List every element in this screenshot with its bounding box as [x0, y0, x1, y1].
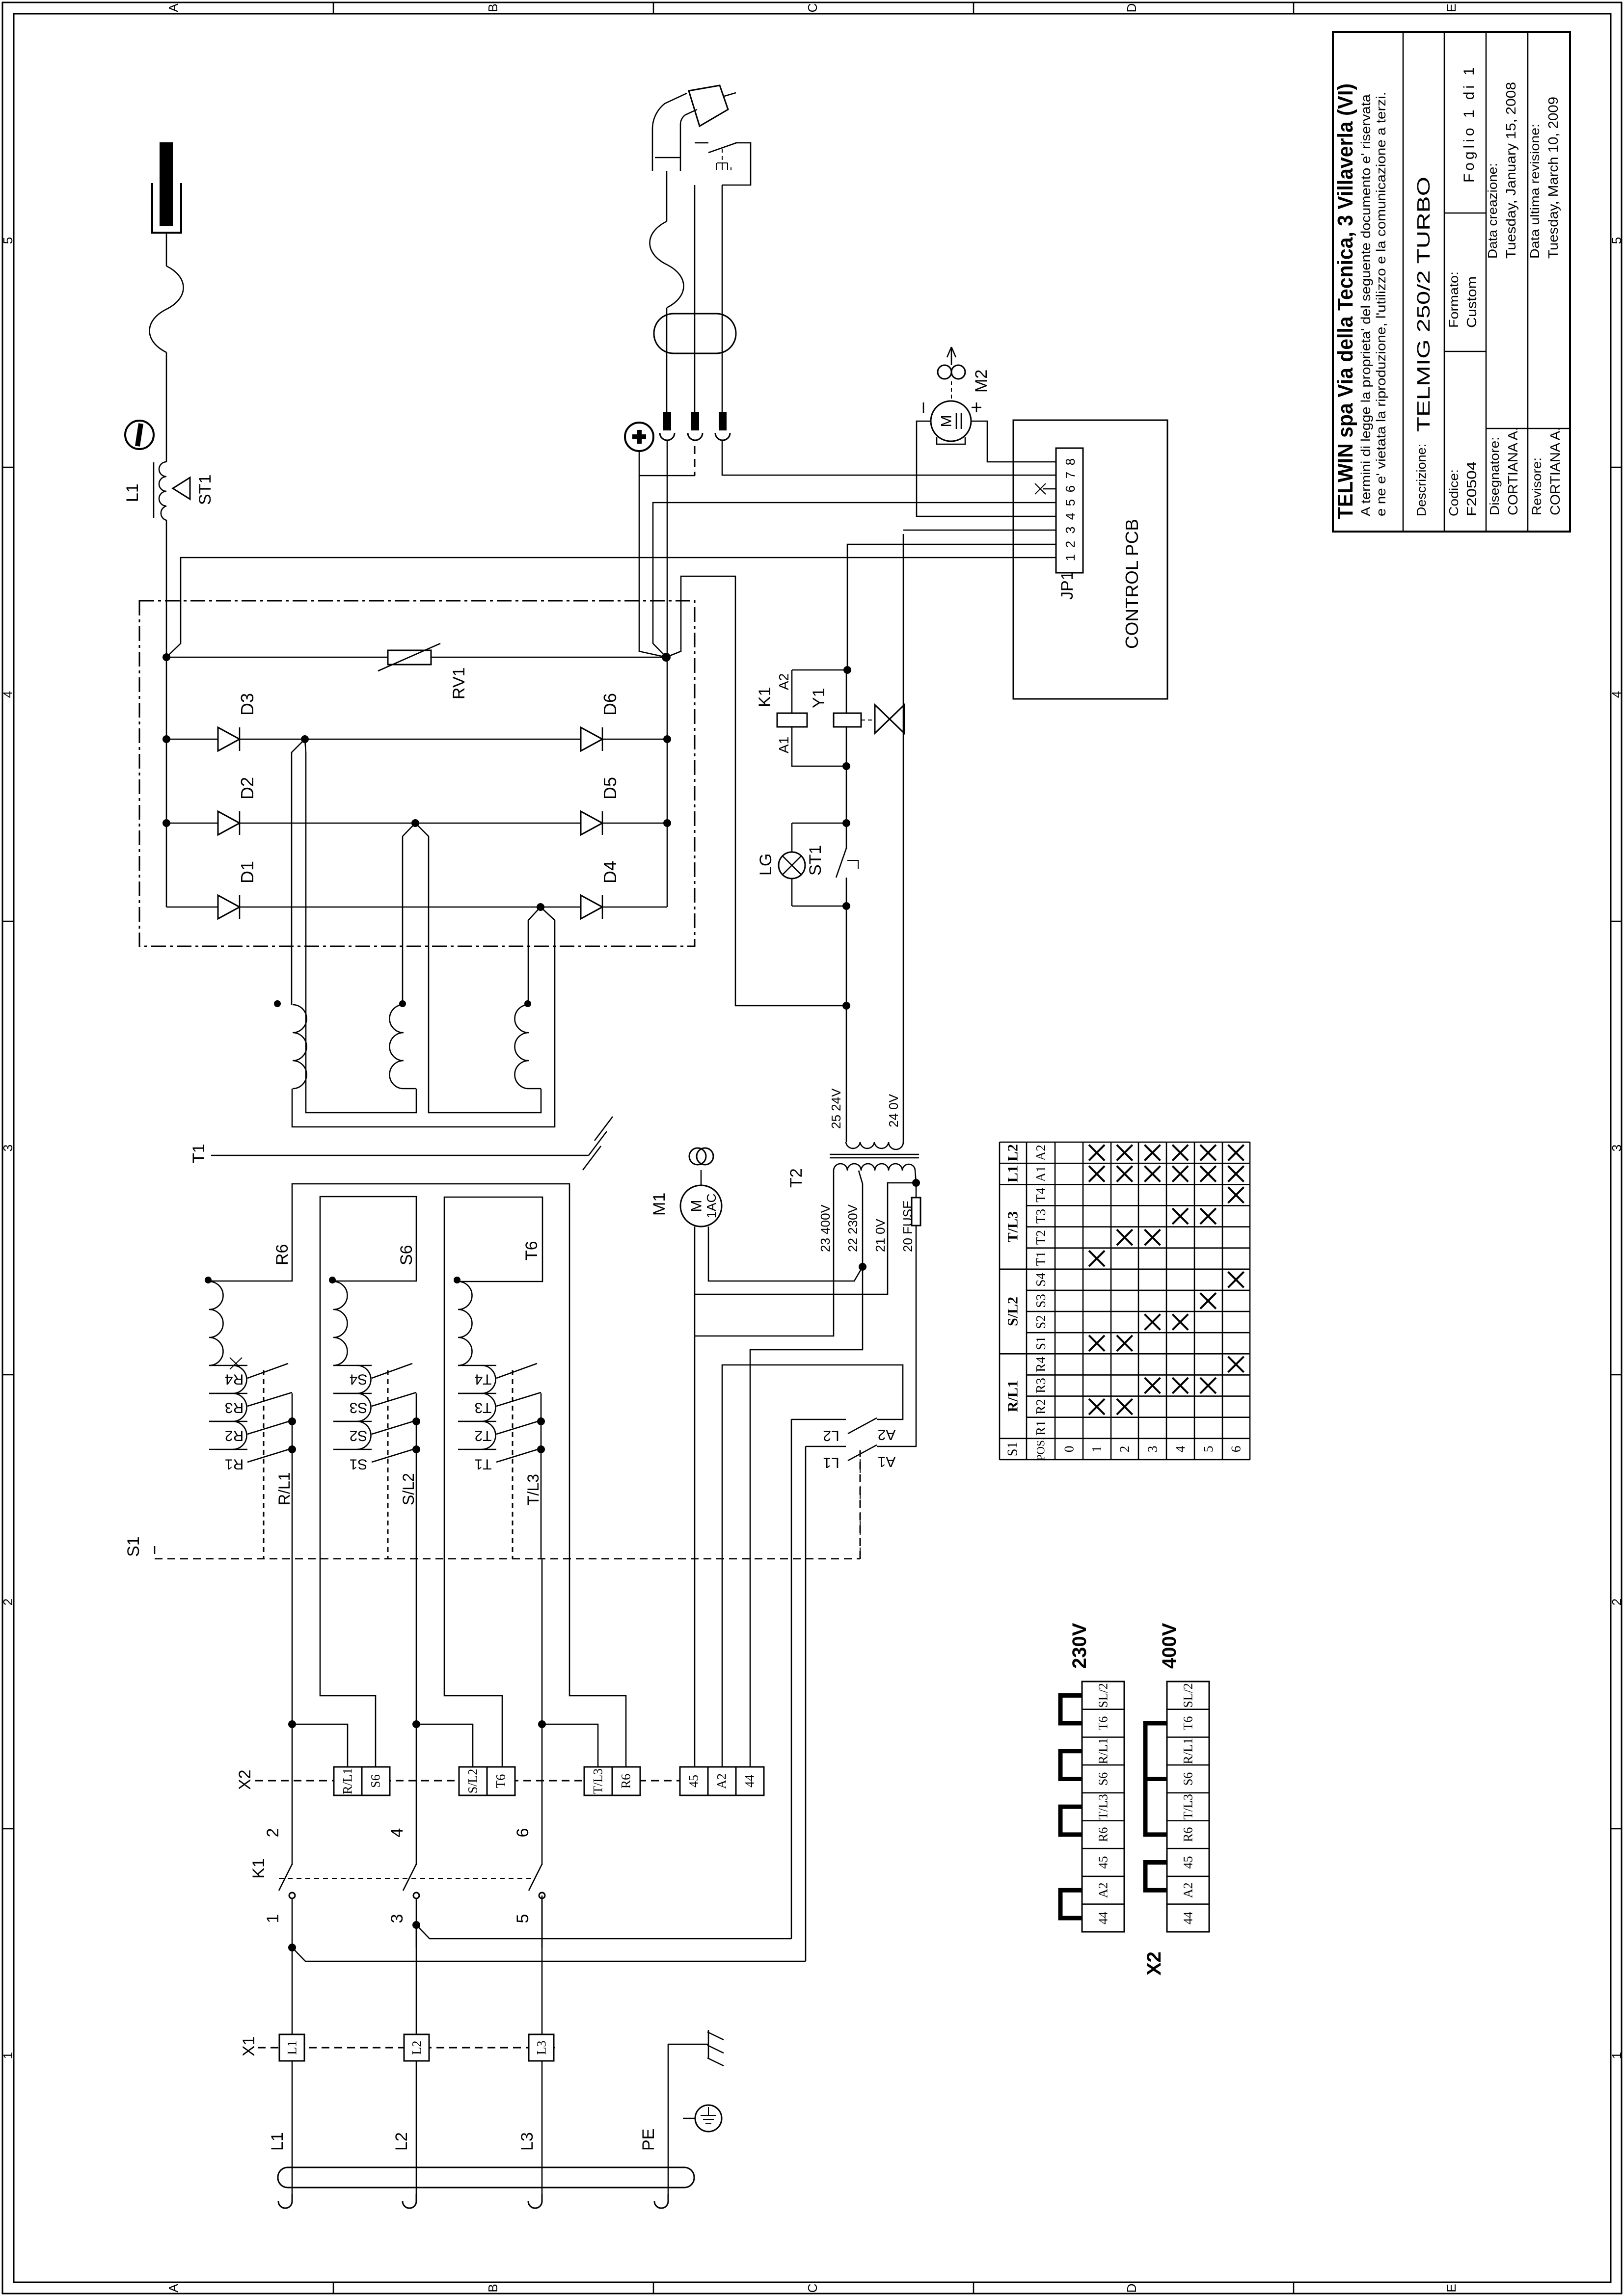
svg-text:Y1: Y1 — [810, 688, 828, 708]
svg-text:X1: X1 — [240, 2036, 258, 2056]
aux contact L1-A1 — [806, 1446, 846, 1447]
wire R/L1 tap bus to X2 — [288, 1720, 296, 1728]
svg-text:T/L3: T/L3 — [524, 1474, 542, 1505]
svg-text:L1: L1 — [268, 2132, 287, 2151]
svg-text:400V: 400V — [1159, 1623, 1180, 1669]
svg-text:D4: D4 — [600, 861, 620, 883]
svg-text:R3: R3 — [225, 1400, 244, 1416]
X2 terminal R6 — [612, 1767, 640, 1795]
svg-text:X2: X2 — [1143, 1951, 1165, 1976]
svg-text:L2: L2 — [823, 1428, 839, 1444]
svg-text:ST1: ST1 — [196, 475, 215, 505]
svg-text:R3: R3 — [1033, 1378, 1048, 1393]
svg-text:Disegnatore:: Disegnatore: — [1487, 437, 1502, 515]
aux wires down — [791, 1419, 792, 1939]
svg-text:M2: M2 — [972, 370, 991, 393]
JP1 pin3 wire to T2 0V — [903, 530, 1056, 531]
torch connector pins 1 2 3 — [663, 412, 671, 430]
svg-text:Tuesday, January 15, 2008: Tuesday, January 15, 2008 — [1503, 82, 1518, 259]
svg-text:3: 3 — [1145, 1446, 1160, 1453]
dc minus bus — [166, 657, 167, 907]
svg-text:Revisore:: Revisore: — [1529, 457, 1544, 515]
svg-text:4: 4 — [0, 691, 15, 698]
svg-text:T6: T6 — [522, 1241, 541, 1260]
diode D6 — [581, 727, 602, 751]
svg-text:R6: R6 — [273, 1244, 292, 1265]
connector JP1 — [1056, 448, 1083, 573]
svg-text:S2: S2 — [350, 1428, 368, 1444]
wire T/L3 tap bus to X2 — [538, 1720, 546, 1728]
svg-text:A1: A1 — [776, 737, 791, 753]
svg-text:S/L2: S/L2 — [1005, 1297, 1021, 1326]
svg-text:LG: LG — [757, 854, 775, 876]
ac feeder phase R pair — [292, 739, 305, 1005]
svg-text:R/L1: R/L1 — [1181, 1738, 1195, 1764]
svg-text:T4: T4 — [474, 1371, 491, 1388]
400V jumpers — [1145, 1723, 1167, 1779]
contactor K1 contact 4-3 — [416, 1559, 417, 1865]
svg-text:4: 4 — [1173, 1445, 1188, 1452]
tap selector blades S phase — [357, 1365, 372, 1366]
dc plus bus — [667, 657, 668, 907]
svg-text:B: B — [486, 3, 500, 12]
contactor K1 contact 2-1 — [292, 1559, 293, 1865]
supply wire L2 — [416, 1925, 417, 2034]
svg-text:R/L1: R/L1 — [341, 1768, 355, 1794]
title block — [1333, 32, 1570, 532]
T1 primary winding R phase — [209, 1281, 223, 1365]
svg-text:44: 44 — [1181, 1912, 1195, 1924]
cable ferrite oval — [654, 314, 736, 353]
X1 terminal L1 — [279, 2034, 304, 2061]
varistor RV1 — [166, 657, 388, 658]
svg-text:T1: T1 — [189, 1144, 208, 1163]
svg-text:T1: T1 — [1033, 1251, 1048, 1266]
diode D1 — [218, 895, 240, 919]
svg-text:1: 1 — [264, 1914, 282, 1923]
svg-text:Formato:: Formato: — [1446, 271, 1461, 328]
X2 terminal S/L2 — [459, 1767, 487, 1795]
svg-text:Descrizione:: Descrizione: — [1414, 444, 1429, 516]
svg-text:T/L3: T/L3 — [1181, 1794, 1195, 1819]
PE wire — [668, 2044, 669, 2194]
svg-text:S4: S4 — [350, 1371, 368, 1388]
svg-text:A2: A2 — [715, 1773, 729, 1789]
T1 primary winding T phase — [458, 1281, 472, 1365]
aux dashed link — [860, 1450, 861, 1559]
svg-text:D1: D1 — [237, 861, 257, 883]
svg-text:T/L3: T/L3 — [591, 1768, 605, 1794]
diode D3 — [218, 727, 240, 751]
JP1 pin5 wire to plus node — [653, 503, 1056, 657]
svg-text:T1: T1 — [474, 1456, 491, 1472]
feed wire from plus node loop — [666, 576, 846, 1006]
contactor K1 contact 6-5 — [541, 1559, 543, 1865]
solenoid valve Y1 — [834, 713, 861, 727]
svg-text:R6: R6 — [1096, 1827, 1110, 1842]
svg-text:2: 2 — [0, 1599, 15, 1605]
positive output socket — [625, 423, 653, 451]
svg-text:T6: T6 — [1096, 1716, 1110, 1731]
tap bus S phase — [416, 1393, 417, 1559]
tap bus R phase — [292, 1393, 293, 1559]
svg-text:B: B — [486, 2284, 500, 2292]
svg-text:L1: L1 — [285, 2041, 299, 2055]
JP1 pin4 wire to M2 minus — [917, 421, 1056, 516]
svg-text:A1: A1 — [1033, 1166, 1048, 1182]
selector dashed link S phase — [387, 1370, 389, 1559]
T2 tap 23 400V — [695, 1171, 834, 1336]
svg-text:A2: A2 — [878, 1427, 896, 1443]
svg-text:M: M — [689, 1200, 705, 1212]
wire contact3 node to L2 aux — [412, 1921, 420, 1929]
svg-text:R/L1: R/L1 — [1096, 1738, 1110, 1764]
zone dividers — [333, 2, 334, 14]
branch D3 D6 — [166, 739, 218, 740]
svg-text:L2: L2 — [392, 2132, 411, 2151]
earth circle symbol — [695, 2105, 722, 2132]
svg-text:C: C — [805, 2284, 820, 2293]
diode D4 — [581, 895, 602, 919]
supply hooks — [278, 2194, 292, 2208]
fan motor M1 — [689, 1148, 706, 1165]
svg-text:SL/2: SL/2 — [1096, 1683, 1110, 1708]
M1 leads — [694, 1227, 696, 1767]
svg-text:2: 2 — [1063, 541, 1078, 548]
X2 terminal 44 — [736, 1767, 764, 1795]
PE chassis ground symbol — [708, 2030, 709, 2058]
control pcb box — [1013, 420, 1167, 699]
JP1 pin7 wire to torch pin3 — [722, 440, 1056, 475]
node A2 to JP1 pin2 — [843, 666, 851, 674]
svg-text:6: 6 — [1229, 1446, 1244, 1453]
svg-text:S4: S4 — [1033, 1273, 1048, 1287]
X2 terminal T/L3 — [584, 1767, 612, 1795]
svg-text:R/L1: R/L1 — [275, 1472, 293, 1505]
230V jumpers — [1060, 1695, 1082, 1723]
svg-text:A1: A1 — [878, 1454, 896, 1470]
svg-text:3: 3 — [1609, 1145, 1624, 1151]
diode D5 — [581, 811, 602, 835]
diode D2 — [218, 811, 240, 835]
T1 secondary winding R phase — [293, 1005, 307, 1089]
X2 diagram 230V strip — [1082, 1682, 1124, 1932]
wire to LG/ST1 — [846, 766, 847, 823]
branch D1 D4 — [166, 907, 218, 908]
wire T6 winding top loop — [444, 1197, 542, 1767]
X1 terminal L2 — [404, 2034, 429, 2061]
svg-text:A2: A2 — [1181, 1882, 1195, 1898]
JP1 pin1 wire to minus bus — [166, 558, 1056, 657]
thermostat sensor ST1 on L1 — [173, 478, 190, 499]
JP1 pin8 wire to M2 plus — [971, 421, 1056, 462]
X2 diagram 400V strip — [1167, 1682, 1209, 1932]
svg-text:Data creazione:: Data creazione: — [1485, 163, 1500, 259]
svg-text:T/L3: T/L3 — [1096, 1794, 1110, 1819]
T2 fuse 20 — [912, 1179, 920, 1187]
T1 secondary winding T phase — [515, 1005, 541, 1089]
svg-text:24 0V: 24 0V — [886, 1094, 901, 1127]
svg-text:R6: R6 — [1181, 1827, 1195, 1842]
welding cable wavy section — [150, 266, 184, 352]
svg-text:S6: S6 — [1096, 1772, 1110, 1786]
svg-text:L2: L2 — [1005, 1144, 1021, 1161]
tap selector blades T phase — [482, 1365, 496, 1366]
wire 24V node to T2 — [846, 1006, 847, 1142]
X2 terminal S6 — [362, 1767, 390, 1795]
svg-text:R4: R4 — [1033, 1357, 1048, 1372]
svg-text:A: A — [166, 2284, 181, 2293]
svg-text:S6: S6 — [397, 1245, 416, 1265]
negative output socket — [125, 421, 154, 449]
svg-text:C: C — [805, 3, 820, 13]
svg-text:TELWIN spa Via della Tecnica,: TELWIN spa Via della Tecnica, 3 Villaver… — [1333, 83, 1357, 519]
svg-text:4: 4 — [388, 1828, 406, 1838]
inductor L1 — [159, 462, 166, 520]
svg-text:CORTIANA A.: CORTIANA A. — [1547, 427, 1563, 515]
svg-text:ST1: ST1 — [806, 845, 825, 876]
svg-text:5: 5 — [1201, 1446, 1216, 1453]
tap selector blades R phase — [233, 1365, 247, 1366]
svg-text:T6: T6 — [1181, 1716, 1195, 1731]
svg-text:5: 5 — [1063, 499, 1078, 506]
svg-text:22 230V: 22 230V — [845, 1204, 860, 1252]
svg-text:S/L2: S/L2 — [466, 1769, 480, 1794]
svg-text:e ne e' vietata la riproduzion: e ne e' vietata la riproduzione, l'utili… — [1374, 92, 1388, 516]
svg-text:S1: S1 — [1005, 1442, 1021, 1457]
svg-text:L3: L3 — [518, 2132, 537, 2151]
svg-text:5: 5 — [0, 237, 15, 244]
svg-text:1: 1 — [1089, 1446, 1104, 1453]
rectifier enclosure dash-dot box — [139, 601, 695, 946]
svg-text:F20504: F20504 — [1464, 461, 1479, 516]
svg-text:D: D — [1124, 3, 1139, 13]
svg-text:230V: 230V — [1069, 1623, 1090, 1669]
JP1 pin2 wire to A2 node — [847, 544, 1056, 670]
svg-text:T6: T6 — [494, 1774, 508, 1789]
dashed wire pin2 to plus — [694, 446, 696, 476]
torch neck bend — [652, 93, 687, 129]
branch D2 D5 — [166, 823, 218, 824]
svg-text:S1: S1 — [350, 1456, 368, 1472]
torch wire 2 — [694, 185, 696, 412]
svg-text:R4: R4 — [225, 1371, 244, 1388]
X2 terminal T6 — [487, 1767, 515, 1795]
wire to 24V node — [846, 906, 847, 1006]
svg-text:CONTROL PCB: CONTROL PCB — [1122, 519, 1142, 649]
feed rolls — [938, 365, 951, 379]
JP1 pin6 stub nc — [1043, 488, 1056, 490]
svg-text:25 24V: 25 24V — [829, 1088, 843, 1129]
electrode holder — [160, 142, 173, 226]
wire plus socket to bus — [639, 451, 640, 476]
relay coil K1 — [777, 713, 807, 727]
svg-text:K1: K1 — [756, 687, 774, 707]
svg-text:M: M — [939, 415, 955, 427]
svg-text:S1: S1 — [124, 1536, 143, 1557]
svg-text:Custom: Custom — [1464, 276, 1479, 328]
T2 tap 22 230V — [750, 1171, 863, 1767]
svg-text:R1: R1 — [225, 1456, 244, 1472]
svg-text:T2: T2 — [474, 1428, 491, 1444]
svg-text:T2: T2 — [1033, 1230, 1048, 1245]
svg-text:A termini di legge la propriet: A termini di legge la proprieta' del seg… — [1358, 94, 1373, 516]
ac feeder phase S pair — [403, 823, 415, 1005]
supply wire L1 — [292, 1948, 293, 2034]
svg-text:8: 8 — [1063, 458, 1078, 465]
wire S6 winding top loop — [320, 1197, 416, 1767]
svg-text:L1: L1 — [823, 1455, 839, 1471]
svg-text:5: 5 — [514, 1914, 532, 1923]
svg-text:S/L2: S/L2 — [400, 1473, 417, 1505]
svg-text:2: 2 — [1609, 1599, 1624, 1605]
svg-text:L2: L2 — [410, 2041, 424, 2055]
svg-text:T3: T3 — [1033, 1209, 1048, 1224]
svg-text:1: 1 — [1063, 554, 1078, 561]
svg-text:RV1: RV1 — [450, 667, 468, 699]
svg-text:T3: T3 — [474, 1400, 491, 1416]
X2 terminal R/L1 — [334, 1767, 362, 1795]
svg-text:6: 6 — [1063, 485, 1078, 492]
svg-text:5: 5 — [1609, 237, 1624, 244]
svg-text:2: 2 — [264, 1828, 282, 1838]
wire electrode to cable — [166, 233, 167, 266]
svg-text:1: 1 — [1609, 2052, 1624, 2059]
svg-text:20 FUSE: 20 FUSE — [900, 1201, 915, 1253]
torch wire 3 — [722, 185, 723, 412]
svg-text:D6: D6 — [600, 693, 620, 716]
wire L1 to rectifier minus bus — [166, 520, 167, 657]
T1 secondary winding S phase — [390, 1005, 417, 1089]
svg-text:T2: T2 — [787, 1168, 806, 1188]
svg-text:45: 45 — [687, 1775, 701, 1788]
svg-text:7: 7 — [1063, 472, 1078, 479]
svg-text:X2: X2 — [236, 1769, 254, 1790]
selector dashed link R phase — [263, 1370, 265, 1559]
svg-text:44: 44 — [743, 1775, 757, 1788]
T1 primary winding S phase — [333, 1281, 348, 1365]
wire pin1 to plus node — [667, 440, 668, 657]
tap bus T phase — [541, 1393, 542, 1559]
svg-text:E: E — [1444, 2284, 1459, 2292]
svg-text:R1: R1 — [1033, 1420, 1048, 1436]
svg-text:A2: A2 — [1033, 1145, 1048, 1161]
torch trigger switch E — [695, 142, 708, 144]
svg-text:E: E — [1444, 3, 1459, 12]
T2 0V wire to JP1 pin3 — [903, 534, 904, 1142]
svg-text:TELMIG 250/2 TURBO: TELMIG 250/2 TURBO — [1413, 177, 1434, 432]
svg-text:S1: S1 — [1033, 1336, 1048, 1350]
svg-text:45: 45 — [1096, 1856, 1110, 1869]
svg-text:T4: T4 — [1033, 1187, 1048, 1202]
T2 tap 21 0V — [695, 1183, 916, 1294]
ac feeder phase T pair — [528, 907, 541, 1005]
wire cable to L1 — [166, 352, 167, 462]
svg-text:S6: S6 — [369, 1774, 383, 1788]
svg-text:21 0V: 21 0V — [873, 1218, 888, 1252]
svg-text:S3: S3 — [350, 1400, 368, 1416]
X1 terminal L3 — [529, 2034, 554, 2061]
supply cable oval — [278, 2167, 694, 2188]
svg-text:A: A — [166, 3, 181, 12]
svg-text:JP1: JP1 — [1058, 571, 1077, 600]
svg-text:SL/2: SL/2 — [1181, 1683, 1195, 1708]
svg-text:3: 3 — [388, 1914, 406, 1923]
svg-text:R6: R6 — [619, 1774, 633, 1789]
svg-text:S3: S3 — [1033, 1294, 1048, 1308]
svg-text:0: 0 — [1061, 1446, 1076, 1453]
wire S/L2 tap bus to X2 — [412, 1720, 420, 1728]
svg-text:R2: R2 — [225, 1428, 244, 1444]
torch cable wire 1 — [666, 171, 668, 221]
wire contact1 node to L1 aux — [288, 1944, 296, 1951]
svg-text:3: 3 — [1063, 527, 1078, 534]
svg-text:Data ultima revisione:: Data ultima revisione: — [1527, 124, 1542, 259]
svg-text:POS.: POS. — [1035, 1437, 1047, 1461]
switch table S1 — [999, 1142, 1001, 1460]
svg-text:Tuesday, March 10, 2009: Tuesday, March 10, 2009 — [1545, 97, 1561, 259]
svg-text:M1: M1 — [650, 1193, 669, 1216]
aux contact L2-A2 — [791, 1419, 846, 1420]
svg-text:1: 1 — [0, 2052, 15, 2059]
X2 terminal 45 — [680, 1767, 708, 1795]
svg-text:2: 2 — [1117, 1446, 1132, 1453]
wire feed motor M2 — [931, 401, 971, 441]
svg-text:45: 45 — [1181, 1856, 1195, 1869]
pilot lamp LG — [792, 823, 846, 824]
svg-text:A2: A2 — [776, 673, 791, 690]
svg-text:D: D — [1124, 2284, 1139, 2293]
svg-text:4: 4 — [1063, 513, 1078, 520]
svg-text:PE: PE — [639, 2129, 658, 2151]
K1 dashed link — [279, 1878, 533, 1879]
svg-text:4: 4 — [1609, 691, 1624, 698]
svg-text:R/L1: R/L1 — [1005, 1380, 1021, 1412]
torch nozzle — [689, 85, 728, 126]
svg-text:44: 44 — [1096, 1912, 1110, 1924]
selector dashed link T phase — [512, 1370, 514, 1559]
wire R6 winding top loop — [209, 1184, 626, 1767]
svg-text:CORTIANA A.: CORTIANA A. — [1505, 427, 1520, 515]
svg-text:L1: L1 — [1005, 1165, 1021, 1182]
svg-text:D2: D2 — [237, 777, 257, 800]
supply wire L3 — [541, 1896, 543, 2034]
svg-text:6: 6 — [514, 1828, 532, 1838]
svg-text:A2: A2 — [1096, 1882, 1110, 1898]
svg-text:3: 3 — [0, 1145, 15, 1151]
svg-text:S2: S2 — [1033, 1315, 1048, 1329]
table X marks — [1089, 1399, 1105, 1415]
svg-text:R2: R2 — [1033, 1399, 1048, 1415]
svg-text:S6: S6 — [1181, 1772, 1195, 1786]
svg-text:K1: K1 — [249, 1858, 268, 1879]
svg-text:23 400V: 23 400V — [818, 1204, 833, 1252]
svg-text:T/L3: T/L3 — [1005, 1211, 1021, 1242]
svg-text:D5: D5 — [600, 777, 620, 800]
svg-text:L3: L3 — [535, 2041, 549, 2055]
svg-text:L1: L1 — [123, 483, 142, 502]
svg-text:1AC: 1AC — [704, 1194, 719, 1219]
svg-text:Codice:: Codice: — [1446, 469, 1461, 516]
X2 terminal A2 — [708, 1767, 736, 1795]
svg-text:D3: D3 — [237, 693, 257, 716]
